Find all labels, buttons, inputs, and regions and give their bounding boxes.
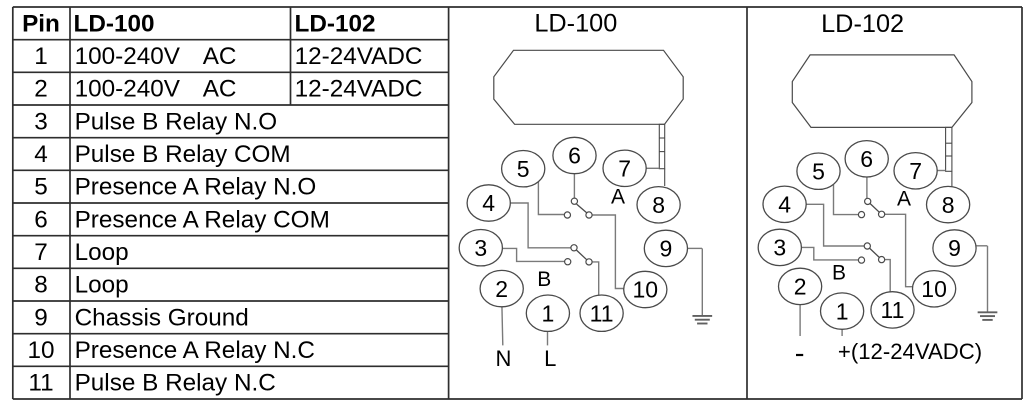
svg-text:6: 6 (34, 206, 48, 233)
svg-text:Presence A Relay COM: Presence A Relay COM (75, 206, 330, 233)
svg-text:10: 10 (921, 276, 947, 302)
svg-text:+(12-24VADC): +(12-24VADC) (838, 339, 982, 364)
svg-text:A: A (611, 185, 625, 208)
svg-text:4: 4 (778, 192, 791, 218)
svg-text:Pulse B Relay COM: Pulse B Relay COM (75, 141, 291, 168)
svg-text:LD-102: LD-102 (295, 10, 376, 37)
svg-text:9: 9 (660, 236, 673, 262)
svg-text:Chassis Ground: Chassis Ground (75, 304, 249, 331)
svg-text:AC: AC (203, 76, 237, 103)
svg-text:Presence A Relay N.O: Presence A Relay N.O (75, 174, 317, 201)
svg-text:LD-100: LD-100 (534, 10, 617, 38)
svg-text:Pulse B Relay N.O: Pulse B Relay N.O (75, 108, 278, 135)
svg-text:LD-100: LD-100 (74, 10, 155, 37)
svg-text:LD-102: LD-102 (821, 10, 904, 38)
svg-text:8: 8 (652, 192, 665, 218)
svg-text:11: 11 (881, 297, 905, 323)
svg-text:2: 2 (495, 276, 508, 302)
svg-text:B: B (537, 268, 551, 291)
svg-text:N: N (496, 346, 512, 371)
svg-text:100-240V: 100-240V (75, 43, 181, 70)
svg-text:3: 3 (474, 235, 487, 261)
svg-text:8: 8 (34, 272, 48, 299)
svg-text:5: 5 (517, 156, 530, 182)
svg-text:7: 7 (34, 239, 48, 266)
svg-text:Loop: Loop (75, 272, 129, 299)
svg-text:10: 10 (633, 277, 659, 303)
svg-text:100-240V: 100-240V (75, 76, 181, 103)
svg-text:AC: AC (203, 43, 237, 70)
svg-text:2: 2 (794, 274, 807, 300)
svg-text:L: L (544, 346, 556, 371)
svg-text:9: 9 (34, 304, 48, 331)
svg-text:12-24VADC: 12-24VADC (295, 76, 423, 103)
svg-text:7: 7 (618, 156, 631, 182)
svg-text:7: 7 (909, 158, 922, 184)
svg-text:3: 3 (34, 108, 48, 135)
svg-text:8: 8 (942, 192, 955, 218)
svg-text:A: A (897, 188, 911, 211)
svg-text:3: 3 (773, 235, 786, 261)
svg-text:1: 1 (836, 298, 849, 324)
svg-text:11: 11 (590, 300, 614, 326)
svg-text:2: 2 (34, 76, 48, 103)
svg-text:12-24VADC: 12-24VADC (295, 43, 423, 70)
svg-text:5: 5 (34, 174, 48, 201)
svg-text:B: B (832, 262, 846, 285)
svg-text:1: 1 (542, 300, 555, 326)
svg-text:Pulse B Relay N.C: Pulse B Relay N.C (75, 370, 276, 397)
svg-text:10: 10 (27, 337, 54, 364)
svg-text:6: 6 (568, 143, 581, 169)
svg-text:4: 4 (482, 190, 495, 216)
svg-text:9: 9 (948, 235, 961, 261)
svg-text:1: 1 (34, 43, 48, 70)
svg-text:4: 4 (34, 141, 48, 168)
svg-text:6: 6 (860, 146, 873, 172)
svg-text:5: 5 (812, 158, 825, 184)
svg-text:Presence A Relay N.C: Presence A Relay N.C (75, 337, 315, 364)
svg-text:11: 11 (28, 370, 53, 397)
svg-text:Pin: Pin (22, 10, 60, 37)
svg-text:Loop: Loop (75, 239, 129, 266)
